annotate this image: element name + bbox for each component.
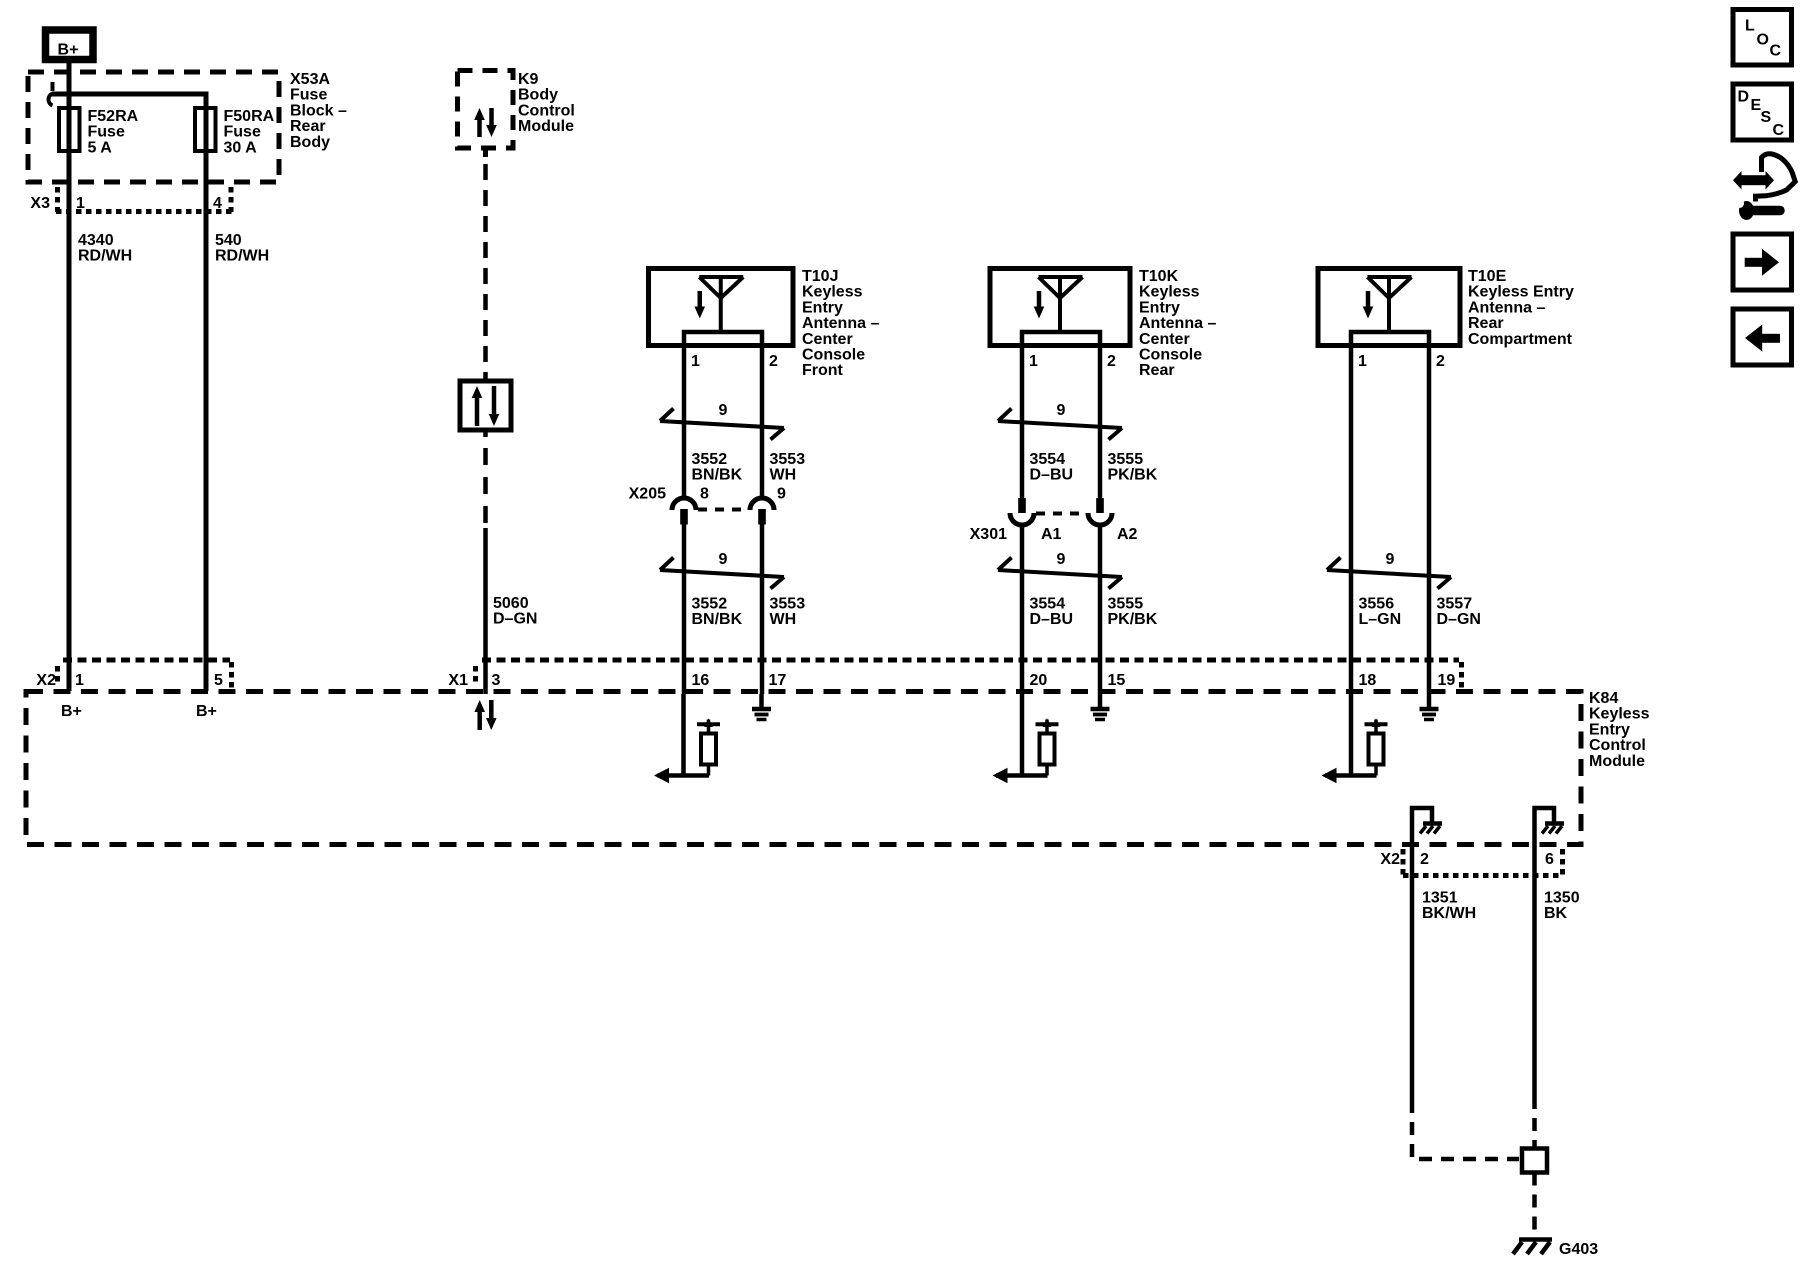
svg-text:BK: BK bbox=[1544, 905, 1568, 922]
svg-text:D–GN: D–GN bbox=[493, 611, 537, 628]
antenna symbol T10K bbox=[1034, 277, 1083, 331]
wire 540 RD/WH bbox=[215, 232, 269, 265]
svg-text:Antenna –: Antenna – bbox=[1468, 299, 1545, 316]
connector tab T10K bbox=[1022, 332, 1100, 346]
internal antenna feed symbol bbox=[1374, 720, 1378, 734]
svg-text:3555: 3555 bbox=[1108, 451, 1144, 468]
wire 3555 PK/BK (upper label) bbox=[1108, 451, 1158, 484]
svg-text:A2: A2 bbox=[1117, 526, 1138, 543]
svg-text:Control: Control bbox=[518, 102, 575, 119]
svg-text:2: 2 bbox=[1436, 353, 1445, 370]
label T10J bbox=[802, 268, 879, 379]
internal wire from pin at x=683.5 bbox=[681, 694, 686, 776]
svg-text:5 A: 5 A bbox=[88, 139, 113, 156]
svg-text:D–BU: D–BU bbox=[1030, 611, 1074, 628]
svg-text:Console: Console bbox=[1139, 347, 1202, 364]
svg-text:2: 2 bbox=[1420, 851, 1429, 868]
svg-text:B+: B+ bbox=[196, 703, 217, 720]
connector X301 bbox=[1010, 498, 1112, 525]
svg-text:X1: X1 bbox=[448, 672, 468, 689]
svg-text:9: 9 bbox=[1386, 551, 1395, 568]
svg-text:3557: 3557 bbox=[1437, 596, 1473, 613]
label K9 Body Control Module bbox=[518, 71, 575, 135]
svg-text:D–GN: D–GN bbox=[1437, 611, 1481, 628]
connector X2 (dotted, pins 1/5) bbox=[58, 660, 232, 688]
svg-text:9: 9 bbox=[719, 551, 728, 568]
svg-text:3554: 3554 bbox=[1030, 596, 1066, 613]
svg-text:Compartment: Compartment bbox=[1468, 331, 1573, 348]
internal signal arrow (to left) bbox=[658, 773, 710, 778]
svg-text:X301: X301 bbox=[970, 526, 1007, 543]
wire T10K pin1 upper segment bbox=[1020, 346, 1025, 499]
svg-text:Fuse: Fuse bbox=[224, 124, 261, 141]
antenna T10K (box) bbox=[990, 269, 1130, 346]
antenna symbol T10E bbox=[1363, 277, 1412, 331]
svg-text:3556: 3556 bbox=[1359, 596, 1395, 613]
svg-text:Body: Body bbox=[518, 87, 558, 104]
internal signal arrow (to left) bbox=[1325, 773, 1377, 778]
svg-text:20: 20 bbox=[1030, 672, 1048, 689]
svg-text:D: D bbox=[1738, 89, 1750, 106]
svg-text:2: 2 bbox=[1107, 353, 1116, 370]
svg-text:Center: Center bbox=[1139, 331, 1190, 348]
svg-text:L–GN: L–GN bbox=[1359, 611, 1402, 628]
svg-text:F52RA: F52RA bbox=[88, 108, 139, 125]
svg-text:Module: Module bbox=[1589, 753, 1645, 770]
K9 bidirectional arrows bbox=[474, 108, 497, 137]
svg-text:3: 3 bbox=[492, 672, 501, 689]
svg-text:1: 1 bbox=[76, 195, 85, 212]
label F50RA Fuse 30 A bbox=[224, 108, 275, 156]
svg-text:9: 9 bbox=[1057, 402, 1066, 419]
wire 3555 PK/BK (lower label) bbox=[1108, 596, 1158, 629]
icon next-page (right arrow box) bbox=[1733, 234, 1792, 290]
wire B+ feed (vertical into fuse F52RA) bbox=[67, 59, 72, 691]
svg-text:BK/WH: BK/WH bbox=[1422, 905, 1476, 922]
svg-text:K9: K9 bbox=[518, 71, 539, 88]
svg-text:L: L bbox=[1745, 18, 1755, 35]
internal resistor bbox=[1040, 734, 1055, 765]
svg-text:BN/BK: BN/BK bbox=[692, 611, 743, 628]
svg-text:T10K: T10K bbox=[1139, 268, 1179, 285]
svg-text:WH: WH bbox=[770, 467, 797, 484]
svg-text:Keyless: Keyless bbox=[1589, 706, 1650, 723]
svg-text:X3: X3 bbox=[30, 195, 50, 212]
svg-text:9: 9 bbox=[777, 486, 786, 503]
internal chassis ground (wire x=1534.5) bbox=[1535, 808, 1565, 845]
svg-text:WH: WH bbox=[770, 611, 797, 628]
svg-text:X205: X205 bbox=[629, 486, 666, 503]
module K9 (dashed box) bbox=[458, 71, 514, 149]
ground G403 bbox=[1513, 1240, 1552, 1255]
wire 1350 BK bbox=[1532, 845, 1537, 1097]
wire 4340 RD/WH bbox=[78, 232, 132, 265]
power symbol B+ bbox=[46, 30, 94, 60]
svg-text:5: 5 bbox=[214, 672, 223, 689]
serial data symbol (box with arrows) bbox=[460, 381, 511, 430]
svg-text:1: 1 bbox=[75, 672, 84, 689]
twisted pair symbol (upper, T10J) bbox=[660, 402, 784, 440]
module K84 Keyless Entry Control Module (dashed box) bbox=[26, 692, 1581, 845]
icon prev-page (left arrow box) bbox=[1733, 309, 1792, 365]
connector X2 (dotted, pins 2/6) bbox=[1403, 849, 1563, 876]
splice S403 (box) bbox=[1522, 1149, 1547, 1173]
wire branch to fuse F50RA bbox=[52, 94, 206, 691]
svg-text:X2: X2 bbox=[36, 672, 56, 689]
wire T10E pin1 bbox=[1349, 346, 1354, 695]
wire 3554 D-BU (upper label) bbox=[1030, 451, 1074, 484]
icon wiring/repair (arrows and wrench) bbox=[1733, 154, 1795, 220]
internal ground at pin x=1100 bbox=[1091, 694, 1110, 720]
svg-text:1: 1 bbox=[1358, 353, 1367, 370]
svg-text:8: 8 bbox=[700, 486, 709, 503]
svg-text:5060: 5060 bbox=[493, 595, 529, 612]
wire 3553 WH (upper label) bbox=[770, 451, 806, 484]
svg-text:Front: Front bbox=[802, 362, 844, 379]
bus tap curl bbox=[49, 82, 53, 106]
wire T10K pin1 lower segment bbox=[1020, 525, 1025, 694]
svg-text:Antenna –: Antenna – bbox=[1139, 315, 1216, 332]
svg-text:9: 9 bbox=[1057, 551, 1066, 568]
antenna symbol T10J bbox=[694, 277, 743, 331]
svg-text:BN/BK: BN/BK bbox=[692, 467, 743, 484]
svg-text:Rear: Rear bbox=[290, 118, 326, 135]
svg-text:Keyless: Keyless bbox=[802, 284, 863, 301]
wire to ground G403 (dashed) bbox=[1532, 1173, 1537, 1237]
svg-text:Control: Control bbox=[1589, 737, 1646, 754]
wire T10K pin2 upper segment bbox=[1098, 346, 1103, 499]
fuse F50RA 30A bbox=[195, 108, 216, 151]
svg-text:A1: A1 bbox=[1041, 526, 1062, 543]
connector X3 (dotted) bbox=[56, 187, 232, 212]
wire 3552 BN/BK (lower label) bbox=[692, 596, 743, 629]
internal wire from pin at x=1022 bbox=[1020, 694, 1025, 776]
internal ground at pin x=761.5 bbox=[752, 694, 771, 720]
icon LOC (hotspot box) bbox=[1733, 10, 1792, 66]
label X53A Fuse Block - Rear Body bbox=[290, 71, 347, 151]
connector X1 (dotted strip) bbox=[476, 660, 1462, 688]
internal resistor bbox=[701, 734, 716, 765]
wire T10E pin2 bbox=[1427, 346, 1432, 695]
svg-text:Keyless: Keyless bbox=[1139, 284, 1200, 301]
fuse F52RA 5A bbox=[59, 108, 80, 151]
connector tab T10E bbox=[1351, 332, 1429, 346]
svg-text:3555: 3555 bbox=[1108, 596, 1144, 613]
fuse block X53A (dashed enclosure) bbox=[28, 72, 279, 182]
wire 1351 BK/WH bbox=[1410, 845, 1415, 1101]
label T10K bbox=[1139, 268, 1216, 379]
internal resistor bbox=[1369, 734, 1384, 765]
label 5060 D-GN bbox=[493, 595, 537, 628]
svg-text:Body: Body bbox=[290, 134, 330, 151]
svg-text:3554: 3554 bbox=[1030, 451, 1066, 468]
svg-text:2: 2 bbox=[769, 353, 778, 370]
internal chassis ground (wire x=1412) bbox=[1412, 808, 1442, 845]
svg-text:Module: Module bbox=[518, 118, 574, 135]
internal ground at pin x=1429 bbox=[1420, 694, 1439, 720]
svg-text:Rear: Rear bbox=[1139, 362, 1175, 379]
svg-text:Keyless Entry: Keyless Entry bbox=[1468, 284, 1574, 301]
svg-text:18: 18 bbox=[1359, 672, 1377, 689]
wire 3553 WH (lower label) bbox=[770, 596, 806, 629]
wire T10J pin2 lower segment bbox=[760, 522, 765, 694]
wire from K9 (dashed circuit continuation) bbox=[483, 148, 488, 157]
label 1351 BK/WH bbox=[1422, 890, 1476, 923]
wire T10J pin1 lower segment bbox=[682, 522, 687, 694]
label 1350 BK bbox=[1544, 890, 1580, 923]
svg-text:3553: 3553 bbox=[770, 596, 806, 613]
svg-text:540: 540 bbox=[215, 232, 242, 249]
connector tab T10J bbox=[684, 332, 762, 346]
svg-text:1: 1 bbox=[1029, 353, 1038, 370]
twisted pair symbol (upper, T10K) bbox=[998, 402, 1122, 440]
svg-text:X2: X2 bbox=[1380, 851, 1400, 868]
label T10E bbox=[1468, 268, 1574, 348]
svg-text:4: 4 bbox=[213, 195, 222, 212]
wire 5060 D-GN bbox=[483, 430, 488, 437]
svg-text:S: S bbox=[1761, 109, 1772, 126]
internal antenna feed symbol bbox=[1045, 720, 1049, 734]
wire 3556 L-GN (label) bbox=[1359, 596, 1402, 629]
twisted pair symbol (lower, T10K) bbox=[998, 551, 1122, 589]
svg-text:C: C bbox=[1773, 122, 1785, 139]
svg-text:6: 6 bbox=[1545, 851, 1554, 868]
svg-text:PK/BK: PK/BK bbox=[1108, 611, 1158, 628]
wire 3554 D-BU (lower label) bbox=[1030, 596, 1074, 629]
svg-text:Fuse: Fuse bbox=[88, 124, 125, 141]
svg-text:16: 16 bbox=[692, 672, 710, 689]
antenna T10E (box) bbox=[1318, 269, 1460, 346]
twisted pair symbol (lower, T10J) bbox=[660, 551, 784, 589]
internal wire from pin at x=1351 bbox=[1349, 694, 1354, 776]
twisted pair symbol (T10E) bbox=[1327, 551, 1451, 589]
svg-text:RD/WH: RD/WH bbox=[215, 248, 269, 265]
svg-text:G403: G403 bbox=[1559, 1241, 1598, 1258]
wire 3557 D-GN (label) bbox=[1437, 596, 1481, 629]
svg-text:F50RA: F50RA bbox=[224, 108, 275, 125]
connector X205 bbox=[672, 498, 774, 525]
svg-text:T10E: T10E bbox=[1468, 268, 1507, 285]
icon DESC (hotspot box) bbox=[1733, 84, 1792, 140]
label F52RA Fuse 5 A bbox=[88, 108, 139, 156]
internal serial data arrows (pin 3) bbox=[474, 700, 496, 730]
label K84 Keyless Entry Control Module bbox=[1589, 690, 1650, 770]
svg-text:Antenna –: Antenna – bbox=[802, 315, 879, 332]
svg-text:Block –: Block – bbox=[290, 102, 347, 119]
svg-text:3552: 3552 bbox=[692, 451, 728, 468]
antenna T10J (box) bbox=[649, 269, 794, 346]
svg-text:Entry: Entry bbox=[802, 299, 843, 316]
svg-text:15: 15 bbox=[1108, 672, 1126, 689]
wire 3552 BN/BK (upper label) bbox=[692, 451, 743, 484]
svg-text:PK/BK: PK/BK bbox=[1108, 467, 1158, 484]
svg-text:Entry: Entry bbox=[1589, 721, 1630, 738]
svg-text:B+: B+ bbox=[61, 703, 82, 720]
svg-text:X53A: X53A bbox=[290, 71, 330, 88]
svg-text:RD/WH: RD/WH bbox=[78, 248, 132, 265]
svg-text:1351: 1351 bbox=[1422, 890, 1458, 907]
wire T10K pin2 lower segment bbox=[1098, 525, 1103, 694]
svg-text:K84: K84 bbox=[1589, 690, 1618, 707]
svg-text:O: O bbox=[1757, 32, 1769, 49]
svg-text:17: 17 bbox=[769, 672, 787, 689]
svg-text:19: 19 bbox=[1438, 672, 1456, 689]
svg-text:B+: B+ bbox=[58, 42, 79, 59]
svg-text:Rear: Rear bbox=[1468, 315, 1504, 332]
wire T10J pin1 upper segment bbox=[682, 346, 687, 500]
svg-text:C: C bbox=[1770, 43, 1782, 60]
svg-text:30 A: 30 A bbox=[224, 139, 258, 156]
wire T10J pin2 upper segment bbox=[760, 346, 765, 500]
svg-text:9: 9 bbox=[719, 402, 728, 419]
svg-text:T10J: T10J bbox=[802, 268, 838, 285]
svg-text:Entry: Entry bbox=[1139, 299, 1180, 316]
svg-text:1350: 1350 bbox=[1544, 890, 1580, 907]
svg-text:4340: 4340 bbox=[78, 232, 114, 249]
internal signal arrow (to left) bbox=[996, 773, 1048, 778]
svg-text:Console: Console bbox=[802, 347, 865, 364]
svg-text:3552: 3552 bbox=[692, 596, 728, 613]
svg-text:3553: 3553 bbox=[770, 451, 806, 468]
internal antenna feed symbol bbox=[707, 720, 711, 734]
svg-text:Center: Center bbox=[802, 331, 853, 348]
svg-text:Fuse: Fuse bbox=[290, 87, 327, 104]
svg-text:D–BU: D–BU bbox=[1030, 467, 1074, 484]
svg-text:1: 1 bbox=[691, 353, 700, 370]
